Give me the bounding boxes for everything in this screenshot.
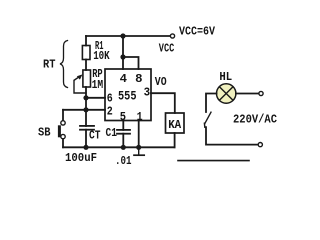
- pushbutton SB plunger bar: [58, 125, 61, 137]
- terminal AC bottom: [258, 143, 262, 147]
- ground symbol: [138, 147, 140, 154]
- op-amp / timer IC U1 555 box: [105, 69, 151, 121]
- wire SB upper stub: [62, 110, 64, 121]
- svg-text:VO: VO: [155, 76, 167, 89]
- wire top VCC rail: [86, 35, 170, 37]
- svg-text:1: 1: [137, 110, 143, 124]
- switch contact blade: [205, 112, 211, 123]
- svg-text:CT: CT: [89, 130, 101, 143]
- wire to pin 4: [122, 57, 124, 69]
- svg-text:5: 5: [120, 110, 126, 124]
- wire pin 1 down: [138, 121, 140, 148]
- resistor R1: [82, 46, 90, 60]
- RP wiper arrow: [74, 81, 86, 94]
- capacitor C1 plates: [117, 129, 130, 131]
- wire bottom ground rail: [63, 146, 175, 148]
- svg-text:C1: C1: [106, 127, 118, 140]
- node junction pin2 row: [83, 107, 88, 112]
- svg-text:220V/AC: 220V/AC: [233, 114, 277, 127]
- svg-text:SB: SB: [38, 126, 51, 139]
- wire R1 to RP: [85, 60, 87, 71]
- svg-text:4: 4: [120, 72, 127, 86]
- wire junction down: [122, 36, 124, 57]
- terminal VCC open circle: [170, 34, 174, 38]
- svg-text:2: 2: [107, 105, 113, 119]
- svg-text:HL: HL: [219, 71, 232, 84]
- wire CT bottom: [85, 130, 87, 148]
- wire pin 3 output: [151, 93, 175, 113]
- brace RT: [60, 41, 68, 88]
- svg-text:10K: 10K: [93, 50, 110, 63]
- svg-text:.01: .01: [115, 155, 132, 168]
- svg-text:RT: RT: [43, 59, 56, 72]
- relay coil KA box: [166, 113, 185, 133]
- wire pin 6 row: [86, 97, 105, 99]
- wire KA to rail: [174, 133, 176, 147]
- svg-text:3: 3: [144, 85, 151, 99]
- pushbutton SB bottom terminal: [61, 134, 65, 138]
- wire SB lower stub: [62, 139, 64, 147]
- svg-text:100uF: 100uF: [65, 152, 97, 165]
- wire switch lower to AC terminal: [206, 127, 258, 144]
- svg-text:VCC=6V: VCC=6V: [179, 26, 215, 39]
- svg-text:KA: KA: [168, 119, 181, 132]
- pushbutton SB top terminal: [61, 121, 65, 125]
- node junction pin1 rail: [136, 145, 141, 150]
- wire RP down to CT: [85, 87, 87, 126]
- svg-text:6: 6: [107, 92, 113, 106]
- node junction CT rail: [83, 145, 88, 150]
- wire rail down to R1: [85, 36, 87, 46]
- node junction C1 rail: [121, 145, 126, 150]
- wire to pin 8: [123, 57, 139, 69]
- svg-text:1M: 1M: [92, 79, 104, 92]
- svg-text:VCC: VCC: [159, 43, 175, 56]
- wire lamp left to switch: [206, 94, 217, 113]
- node junction on top rail: [120, 33, 125, 38]
- potentiometer RP body: [83, 70, 91, 87]
- wire C1 bottom: [122, 134, 124, 148]
- wire pin 5 down: [122, 121, 124, 130]
- lamp HL: [217, 84, 236, 103]
- node junction pin8 branch: [120, 54, 125, 59]
- svg-text:555: 555: [118, 89, 137, 104]
- svg-text:8: 8: [135, 72, 142, 86]
- wire pin 2 row: [63, 109, 105, 111]
- node junction pin6 row: [83, 95, 88, 100]
- capacitor CT plates: [80, 125, 94, 127]
- wire lamp right: [236, 93, 259, 95]
- terminal AC top: [259, 91, 263, 95]
- separator line: [178, 160, 249, 162]
